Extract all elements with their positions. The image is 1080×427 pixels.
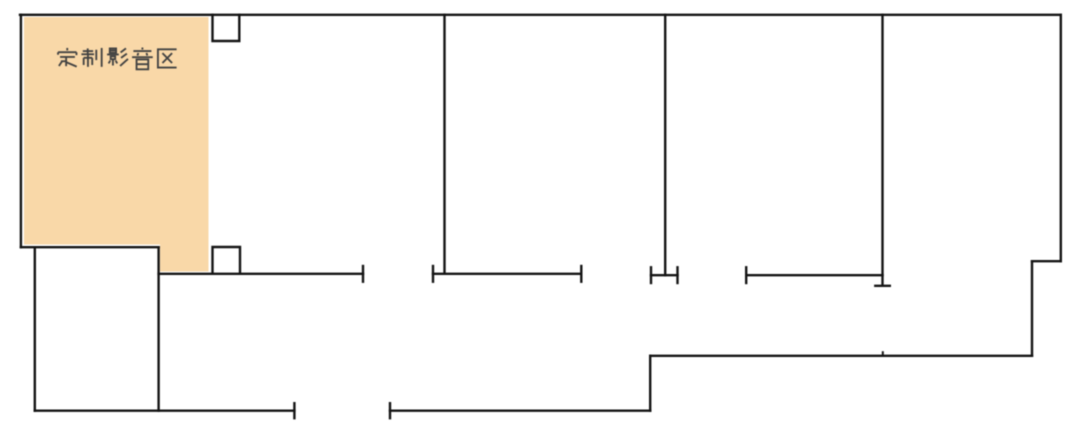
glyph: 区 <box>158 49 177 67</box>
glyph: 定 <box>58 48 77 67</box>
wall: step horizontal y=261 <box>1032 260 1061 262</box>
wall: bottom-middle exterior <box>390 410 650 412</box>
wall: room1 right vertical <box>157 247 159 411</box>
glyph: 影 <box>107 48 128 66</box>
wall: vertical partition x=884 <box>881 15 883 286</box>
wall: vertical partition x=664 <box>664 15 666 275</box>
stub tick on y=356 wall <box>882 352 884 356</box>
wall: room1 left <box>34 247 36 411</box>
door jamb tick: segment C start <box>650 267 652 283</box>
door jamb tick: bottom-middle start <box>389 403 391 418</box>
glyph: 音 <box>132 48 153 70</box>
glyph: 制 <box>81 48 101 67</box>
door jamb cap at x=884 foot <box>875 285 890 287</box>
door jamb tick: bottom-left end <box>293 403 295 418</box>
door jamb tick: segment B start <box>432 266 434 282</box>
label text: 定制影音区 drawn as vector strokes <box>58 48 177 70</box>
door jamb tick: segment C end <box>676 267 678 283</box>
pillar: middle notch <box>213 247 241 274</box>
wall: y=274 segment A <box>159 273 363 275</box>
wall: step vertical x=650 <box>649 356 651 411</box>
wall: y=356 horizontal <box>650 355 1032 357</box>
wall: y=274 segment B <box>433 273 581 275</box>
wall: left exterior <box>20 15 22 247</box>
wall: bottom-left exterior <box>35 410 295 412</box>
wall: right exterior <box>1060 15 1062 261</box>
door jamb tick: segment B end <box>580 266 582 282</box>
door jamb tick: segment D start <box>745 267 747 283</box>
wall: top exterior <box>20 14 1061 16</box>
door jamb tick: segment A end <box>362 266 364 282</box>
wall: vertical partition x=444 <box>443 15 445 274</box>
wall: step vertical x=1032 <box>1031 261 1033 356</box>
wall: y=275 segment D <box>746 274 882 276</box>
wall: ledge y=247 left <box>21 246 159 248</box>
pillar: top notch <box>213 15 240 41</box>
zone highlight: custom AV zone fill <box>24 17 209 272</box>
wall: y=275 segment C short <box>651 274 678 276</box>
